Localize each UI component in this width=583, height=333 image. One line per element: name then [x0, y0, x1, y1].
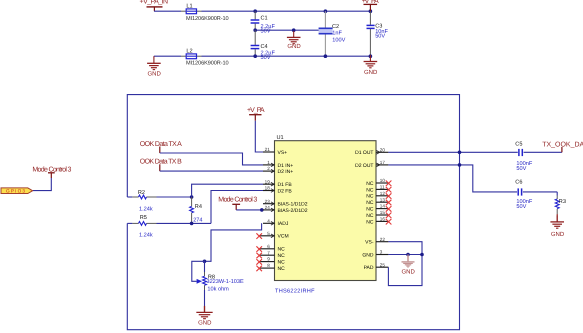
svg-text:50V: 50V: [261, 29, 271, 35]
svg-text:10k ohm: 10k ohm: [207, 286, 229, 293]
svg-text:BIAS-1/D1D2: BIAS-1/D1D2: [278, 202, 308, 208]
svg-text:D2 FB: D2 FB: [278, 188, 293, 194]
pin 3 GND (right): [362, 250, 388, 259]
svg-text:6: 6: [267, 244, 270, 249]
svg-text:NC: NC: [278, 266, 286, 272]
svg-text:NC: NC: [278, 253, 286, 259]
pin 13 NC (right): [366, 197, 391, 206]
capacitor C3: [367, 11, 389, 56]
svg-text:4: 4: [267, 218, 270, 223]
svg-text:14: 14: [380, 204, 386, 209]
inductor L2: [181, 48, 229, 66]
pin 15 NC (right): [366, 210, 391, 219]
svg-text:R5: R5: [140, 215, 147, 221]
potentiometer R8: [192, 261, 244, 307]
ground (middle): [287, 31, 301, 50]
wire middle (C1/C4 junction to C2): [255, 29, 319, 31]
svg-text:NC: NC: [278, 247, 286, 253]
wire +V_PA to pin 21: [255, 121, 263, 152]
power port +V_PA (top right): [362, 0, 379, 11]
svg-text:GPIO3: GPIO3: [6, 188, 25, 193]
capacitor C4: [251, 30, 276, 61]
svg-text:MI1206K900R-10: MI1206K900R-10: [186, 61, 229, 67]
net label Mode Control 3 (left): [32, 165, 71, 178]
svg-text:PAD: PAD: [364, 265, 374, 271]
svg-text:GND: GND: [402, 268, 416, 275]
svg-text:C6: C6: [515, 180, 522, 186]
svg-text:D2 OUT: D2 OUT: [355, 163, 373, 169]
pin 22 VS- (right): [365, 237, 388, 246]
net label OOK Data TX A: [140, 141, 182, 153]
svg-text:R2: R2: [138, 190, 145, 196]
ground (under R3): [550, 214, 564, 238]
svg-text:VCM: VCM: [278, 234, 289, 240]
node C1/C4 junction: [253, 28, 257, 32]
port GPIO3: [1, 188, 33, 194]
svg-text:3: 3: [380, 250, 383, 255]
wire D1 OUT to C5: [388, 151, 517, 153]
pin 24 BIAS-2/D1D2 (left): [263, 205, 308, 214]
svg-text:9: 9: [267, 257, 270, 262]
wire GPIO3 to label: [33, 178, 52, 191]
svg-text:16: 16: [380, 217, 386, 222]
svg-text:NC: NC: [366, 181, 374, 187]
svg-text:2: 2: [267, 166, 270, 171]
svg-text:12: 12: [380, 191, 386, 196]
capacitor C2 (selected): [319, 11, 346, 56]
net label Mode Control 3 (at U1): [218, 196, 257, 210]
svg-text:24: 24: [265, 205, 271, 210]
svg-text:Mode Control 3: Mode Control 3: [218, 196, 257, 204]
resistor R4: [190, 197, 203, 223]
wire D2 OUT to C6: [388, 165, 517, 192]
svg-text:L1: L1: [186, 3, 192, 9]
node R5/R4 junction: [190, 222, 194, 226]
svg-text:7: 7: [267, 250, 270, 255]
svg-text:GND: GND: [198, 320, 212, 327]
pin 16 NC (right): [366, 217, 391, 226]
svg-text:1: 1: [267, 160, 270, 165]
svg-text:GND: GND: [362, 252, 374, 258]
wire to pin 18: [211, 191, 263, 224]
svg-text:NC: NC: [366, 187, 374, 193]
svg-text:50V: 50V: [516, 204, 526, 210]
svg-text:1.24k: 1.24k: [139, 231, 153, 238]
node C1/top-rail junction: [253, 9, 257, 13]
svg-text:NC: NC: [366, 194, 374, 200]
pin 21 VS+ (left): [263, 147, 287, 156]
svg-text:R4: R4: [195, 204, 202, 210]
svg-text:19: 19: [265, 179, 271, 184]
pin 17 D2 OUT (right): [355, 160, 388, 169]
svg-text:GND: GND: [551, 231, 565, 238]
svg-text:+V_PA_IN: +V_PA_IN: [140, 0, 169, 6]
svg-text:R3: R3: [559, 199, 566, 205]
svg-text:OOK Data TX B: OOK Data TX B: [140, 159, 182, 166]
pin 23 BIAS-1/D1D2 (left): [263, 199, 308, 208]
wire Mode Control 3 to pin 24: [236, 209, 262, 211]
svg-text:20: 20: [380, 147, 386, 152]
node C3/top-rail junction: [369, 9, 373, 13]
wire OOK A to pin 1: [160, 153, 263, 165]
node GND/mid-wire junction: [292, 28, 296, 32]
svg-text:1.24k: 1.24k: [139, 206, 153, 213]
node loop/D2OUT junction: [458, 163, 462, 167]
svg-text:OOK Data TX A: OOK Data TX A: [140, 141, 182, 148]
svg-text:NC: NC: [278, 260, 286, 266]
resistor R5: [127, 215, 211, 239]
svg-text:274: 274: [193, 217, 202, 223]
svg-text:10: 10: [380, 178, 386, 183]
pin 20 D1 OUT (right): [355, 147, 388, 156]
svg-text:21: 21: [265, 147, 271, 152]
ground (under L2 left): [147, 56, 161, 77]
pin 19 D1 FB (left): [263, 179, 292, 188]
svg-text:25: 25: [380, 262, 386, 267]
svg-text:IADJ: IADJ: [278, 221, 289, 227]
wire bottom rail: [154, 55, 181, 57]
pin 18 D2 FB (left): [263, 186, 292, 195]
svg-text:GND: GND: [364, 69, 378, 76]
node C4/bottom-rail junction: [253, 54, 257, 58]
node C2/bottom-rail junction: [324, 54, 328, 58]
pin 9 NC (left): [256, 257, 285, 266]
capacitor C6: [515, 180, 557, 210]
ground (under R8): [196, 306, 212, 327]
inductor L1: [181, 3, 229, 21]
op-amp U1 THS6222IRHF: [275, 135, 377, 295]
ground (pin 3, faded): [402, 255, 416, 276]
pin 12 NC (right): [366, 191, 391, 200]
svg-text:+V_PA: +V_PA: [247, 107, 265, 114]
node GND junction: [406, 253, 410, 257]
svg-text:11: 11: [380, 185, 385, 190]
svg-text:D1 FB: D1 FB: [278, 182, 293, 188]
wire OOK B to pin 2: [160, 170, 263, 172]
svg-text:D1 IN+: D1 IN+: [278, 163, 294, 169]
svg-text:D1 OUT: D1 OUT: [355, 150, 373, 156]
node C2/top-rail junction: [324, 9, 328, 13]
svg-text:NC: NC: [366, 207, 374, 213]
svg-text:C1: C1: [261, 16, 268, 22]
wire bottom rail mid: [202, 55, 371, 57]
node C3/bottom-rail junction: [369, 54, 373, 58]
svg-text:THS6222IRHF: THS6222IRHF: [275, 289, 315, 295]
svg-text:NC: NC: [366, 200, 374, 206]
svg-text:13: 13: [380, 197, 386, 202]
capacitor C5: [515, 141, 562, 172]
svg-text:100V: 100V: [332, 37, 345, 43]
svg-text:C5: C5: [515, 141, 522, 147]
pin 14 NC (right): [366, 204, 391, 213]
svg-text:1nF: 1nF: [332, 30, 342, 36]
svg-text:23: 23: [265, 199, 271, 204]
pin 2 D2 IN+ (left): [263, 166, 293, 175]
svg-text:17: 17: [380, 160, 386, 165]
wire to pin 19: [192, 184, 263, 197]
svg-text:D2 IN+: D2 IN+: [278, 169, 294, 175]
svg-text:22: 22: [380, 237, 386, 242]
wire top rail mid: [202, 10, 371, 12]
net label OOK Data TX B: [140, 159, 182, 172]
pin 8 NC (left): [256, 263, 285, 272]
svg-text:15: 15: [380, 210, 386, 215]
svg-text:18: 18: [265, 186, 271, 191]
pin 1 D1 IN+ (left): [263, 160, 293, 169]
node R8 top junction: [203, 260, 207, 264]
pin 11 NC (right): [366, 185, 391, 194]
svg-text:L2: L2: [186, 48, 192, 54]
svg-text:GND: GND: [148, 70, 162, 77]
svg-text:8: 8: [267, 263, 270, 268]
wire VS- / GND / PAD loop: [388, 242, 422, 286]
wire big feedback loop (box): [127, 95, 459, 330]
pin 6 NC (left): [256, 244, 285, 253]
svg-text:BIAS-2/D1D2: BIAS-2/D1D2: [278, 208, 308, 214]
svg-text:C4: C4: [261, 44, 268, 50]
capacitor C1: [251, 11, 276, 35]
resistor R2: [127, 190, 191, 212]
ground (under C3): [364, 55, 378, 76]
power port +V_PA (above U1): [247, 107, 265, 121]
svg-text:50V: 50V: [516, 166, 526, 172]
wire top rail left: [154, 10, 181, 12]
node VS-/GND loop junction: [420, 253, 424, 257]
svg-text:NC: NC: [366, 219, 374, 225]
pin 25 PAD (right): [364, 262, 389, 271]
node loop/D1OUT junction: [458, 151, 462, 155]
net label TX_OOK_DATA: [542, 141, 583, 152]
svg-text:C2: C2: [332, 24, 339, 30]
node R2/R4 junction: [190, 195, 194, 199]
resistor R3: [555, 192, 566, 214]
svg-text:TX_OOK_DATA: TX_OOK_DATA: [542, 141, 583, 148]
svg-text:NC: NC: [366, 213, 374, 219]
pin 5 VCM (left): [256, 231, 288, 240]
svg-text:50V: 50V: [375, 34, 385, 40]
svg-text:VS+: VS+: [278, 150, 288, 156]
svg-text:GND: GND: [287, 43, 301, 50]
wire pin 4 IADJ to R8: [205, 223, 262, 261]
pin 7 NC (left): [256, 250, 285, 259]
svg-text:MI1206K900R-10: MI1206K900R-10: [186, 16, 229, 22]
pin 4 IADJ (left): [263, 218, 289, 227]
node pin24 junction: [260, 208, 264, 212]
svg-text:VS-: VS-: [365, 240, 374, 246]
svg-text:3223W-1-103E: 3223W-1-103E: [207, 279, 244, 285]
power port +V_PA_IN: [140, 0, 169, 11]
svg-text:U1: U1: [277, 135, 284, 141]
pin 10 NC (right): [366, 178, 391, 187]
svg-text:5: 5: [267, 231, 270, 236]
